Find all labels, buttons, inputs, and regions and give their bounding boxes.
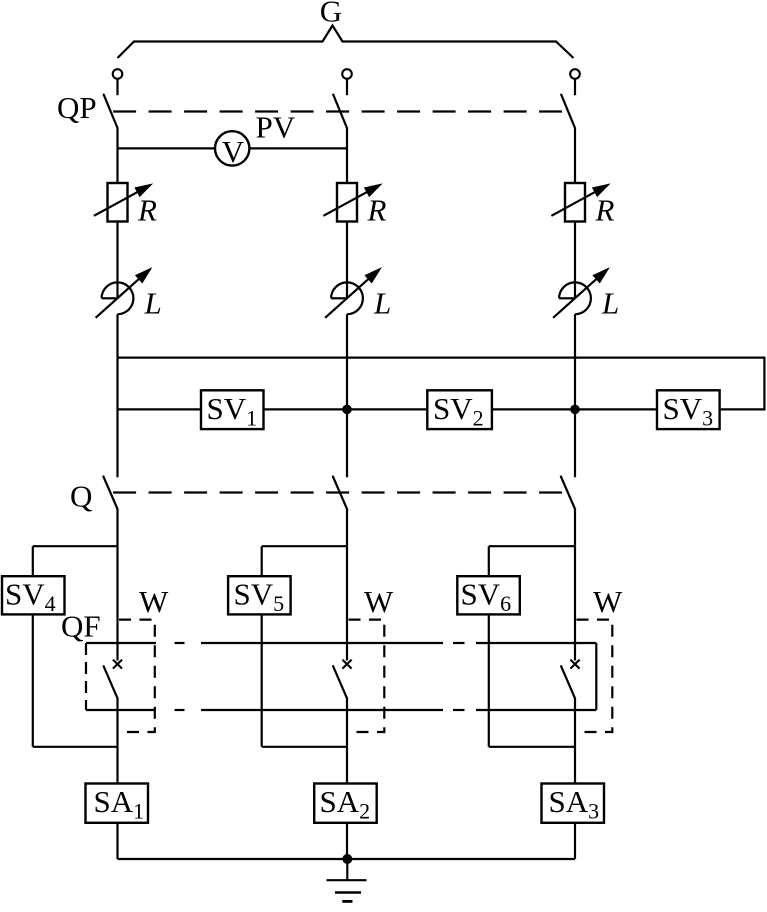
wire SV1 to SV2 bbox=[264, 408, 428, 410]
wire SV4 bottom tap bbox=[33, 746, 118, 748]
wire QP to resistor phase 1 bbox=[116, 128, 118, 184]
svg-text:L: L bbox=[601, 286, 619, 321]
wire SV5 bottom tap bbox=[262, 746, 347, 748]
inductor L radius line phase 1 bbox=[102, 297, 118, 299]
breaker QF blade phase 2 bbox=[333, 666, 347, 698]
wire inductor to bus phase 3 bbox=[574, 314, 576, 477]
wire inductor to bus phase 1 bbox=[116, 314, 118, 477]
arrester SA1 box bbox=[86, 784, 149, 823]
linkage frame bottom chain line bbox=[86, 709, 596, 711]
ground stub wire bbox=[346, 859, 348, 880]
svg-text:QF: QF bbox=[61, 609, 101, 644]
svg-text:V: V bbox=[222, 134, 245, 169]
wire inductor to bus phase 2 bbox=[346, 314, 348, 477]
breaker QF contact x phase 2 bbox=[342, 660, 351, 669]
wire QP to resistor phase 3 bbox=[574, 128, 576, 184]
svg-text:L: L bbox=[144, 286, 162, 321]
thyristor valve SV3 box bbox=[657, 390, 720, 429]
wire SV6 top tap bbox=[489, 545, 575, 547]
wire QF to SA phase 3 bbox=[574, 698, 576, 784]
inductor L arc phase 3 bbox=[559, 282, 591, 314]
wire right bypass vertical bbox=[763, 357, 765, 410]
svg-text:PV: PV bbox=[256, 110, 296, 145]
wire SV6 left drop upper bbox=[488, 546, 490, 577]
wire QF to SA phase 1 bbox=[116, 698, 118, 784]
svg-text:QP: QP bbox=[57, 90, 97, 125]
disconnector QP blade phase 1 bbox=[104, 95, 118, 128]
inductor L radius line phase 3 bbox=[559, 297, 575, 299]
wire terminal stub phase 1 bbox=[116, 79, 118, 95]
junction node phase2 SV row bbox=[342, 405, 352, 415]
thyristor valve SV4 box bbox=[2, 576, 65, 614]
wire Q to QF phase 1 bbox=[116, 509, 118, 661]
inductor L arc phase 2 bbox=[331, 282, 363, 314]
svg-text:R: R bbox=[137, 193, 157, 228]
thyristor valve SV6 box bbox=[457, 576, 520, 614]
breaker W dashed frame phase 3 bbox=[577, 620, 613, 732]
wire SV6 bottom tap bbox=[489, 746, 575, 748]
junction node phase3 SV row bbox=[570, 405, 580, 415]
svg-text:W: W bbox=[364, 584, 394, 619]
linkage frame left dashed edge bbox=[85, 643, 87, 710]
wire phase1 to voltmeter bbox=[118, 147, 215, 149]
wire SA2 to ground bus bbox=[346, 823, 348, 859]
svg-text:Q: Q bbox=[70, 479, 92, 514]
breaker QF contact x phase 3 bbox=[570, 660, 579, 669]
svg-text:R: R bbox=[367, 193, 387, 228]
wire QP to resistor phase 2 bbox=[346, 128, 348, 184]
wire SV2 to SV3 bbox=[492, 408, 657, 410]
breaker W dashed frame phase 1 bbox=[119, 620, 155, 732]
wire resistor to inductor phase 1 bbox=[116, 222, 118, 299]
thyristor valve SV5 box bbox=[228, 576, 291, 614]
wire SV4 top tap bbox=[33, 545, 118, 547]
terminal circle phase 3 bbox=[570, 69, 580, 79]
svg-text:L: L bbox=[373, 286, 391, 321]
ground symbol bbox=[327, 879, 367, 881]
linkage frame right edge bbox=[595, 643, 597, 710]
switch Q blade phase 2 bbox=[333, 477, 347, 510]
resistor R box phase 3 bbox=[565, 183, 585, 222]
inductor L variability arrow phase 3 bbox=[553, 278, 598, 318]
wire SV4 left drop upper bbox=[32, 546, 34, 577]
breaker W dashed frame phase 2 bbox=[349, 620, 385, 732]
wire Q to QF phase 3 bbox=[574, 509, 576, 661]
switch QP linkage dashed line bbox=[106, 110, 568, 112]
inductor L variability arrow phase 1 bbox=[96, 278, 141, 318]
ground bus wire bbox=[118, 858, 576, 860]
junction node ground bus bbox=[342, 854, 352, 864]
wire QF to SA phase 2 bbox=[346, 698, 348, 784]
inductor L variability arrow phase 2 bbox=[325, 278, 370, 318]
wire SV4 left drop lower bbox=[32, 614, 34, 747]
switch Q blade phase 3 bbox=[561, 477, 575, 510]
svg-text:G: G bbox=[320, 0, 342, 29]
inductor L arc phase 1 bbox=[102, 282, 134, 314]
svg-text:W: W bbox=[593, 584, 623, 619]
wire terminal stub phase 2 bbox=[346, 79, 348, 95]
wire SV5 left drop upper bbox=[261, 546, 263, 577]
wire phase1 to SV1 bbox=[118, 408, 202, 410]
inductor L radius line phase 2 bbox=[331, 297, 347, 299]
wire resistor to inductor phase 3 bbox=[574, 222, 576, 299]
resistor R variability arrow phase 1 bbox=[94, 191, 139, 216]
resistor R variability arrow phase 3 bbox=[551, 191, 596, 216]
linkage frame top chain line bbox=[86, 642, 596, 644]
resistor R variability arrow phase 2 bbox=[323, 191, 368, 216]
disconnector QP blade phase 3 bbox=[561, 95, 575, 128]
breaker QF blade phase 3 bbox=[561, 666, 575, 698]
wire SV6 left drop lower bbox=[488, 614, 490, 747]
thyristor valve SV1 box bbox=[201, 390, 264, 429]
wire Q to QF phase 2 bbox=[346, 509, 348, 661]
arrester SA3 box bbox=[542, 784, 605, 823]
terminal circle phase 2 bbox=[342, 69, 352, 79]
switch Q blade phase 1 bbox=[103, 477, 117, 510]
svg-text:W: W bbox=[139, 584, 169, 619]
switch Q linkage dashed line bbox=[106, 491, 568, 493]
resistor R box phase 2 bbox=[337, 183, 357, 222]
breaker QF blade phase 1 bbox=[104, 666, 118, 698]
thyristor valve SV2 box bbox=[427, 390, 492, 429]
wire bypass to SV3 bbox=[720, 408, 766, 410]
arrester SA2 box bbox=[314, 784, 377, 823]
wire SA3 to ground bus bbox=[574, 823, 576, 859]
wire resistor to inductor phase 2 bbox=[346, 222, 348, 299]
wire SA1 to ground bus bbox=[116, 823, 118, 859]
wire SV5 top tap bbox=[262, 545, 347, 547]
resistor R box phase 1 bbox=[108, 183, 128, 222]
voltmeter PV circle bbox=[215, 131, 249, 165]
terminal circle phase 1 bbox=[113, 69, 123, 79]
wire voltmeter to phase2 bbox=[250, 147, 347, 149]
breaker QF contact x phase 1 bbox=[113, 660, 122, 669]
wire terminal stub phase 3 bbox=[574, 79, 576, 95]
svg-text:R: R bbox=[595, 193, 615, 228]
generator G bracket bbox=[118, 26, 574, 59]
disconnector QP blade phase 2 bbox=[333, 95, 347, 128]
wire SV5 left drop lower bbox=[261, 614, 263, 747]
wire top bypass horizontal bbox=[118, 357, 765, 359]
